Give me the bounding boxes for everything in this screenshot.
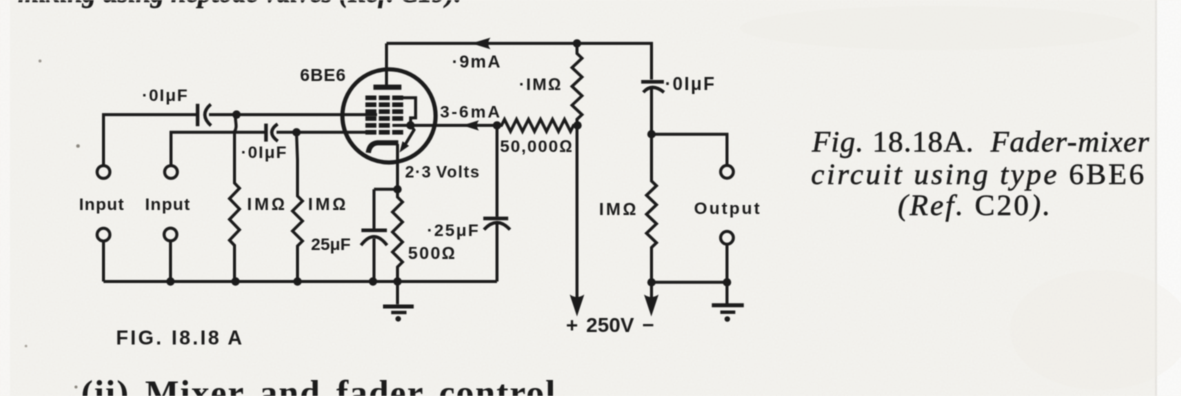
wire B+ down with arrow xyxy=(570,125,585,316)
svg-text:(ii) Mixer and fader control: (ii) Mixer and fader control xyxy=(81,373,557,396)
tube cathode xyxy=(368,143,398,153)
capacitor C2 .01uF (input 2 coupling) xyxy=(266,124,278,142)
node grid1 junction xyxy=(232,110,240,118)
node output ground link xyxy=(723,278,731,286)
capacitor C1 .01uF (input 1 coupling) xyxy=(198,104,211,126)
arrow B- down xyxy=(644,282,659,316)
node rail 500 ohm xyxy=(393,277,401,285)
svg-text:Fig. 18.18A. Fader-mixer: Fig. 18.18A. Fader-mixer xyxy=(811,126,1149,159)
svg-text:·9mA: ·9mA xyxy=(452,52,502,72)
svg-text:+ 250V −: + 250V − xyxy=(566,314,654,337)
svg-text:·IMΩ: ·IMΩ xyxy=(519,75,563,94)
wire to output terminal top xyxy=(652,134,728,165)
input terminal 2 bottom xyxy=(164,228,177,241)
svg-text:circuit using type 6BE6: circuit using type 6BE6 xyxy=(811,158,1144,191)
capacitor .25uF xyxy=(483,218,510,229)
svg-text:25μF: 25μF xyxy=(311,235,351,254)
resistor .1M plate load xyxy=(572,43,582,125)
wire 25uF to rail xyxy=(373,239,376,282)
node 50k left xyxy=(493,121,501,129)
svg-text:3-6mA: 3-6mA xyxy=(440,103,502,122)
wire cathode to 25uF xyxy=(374,189,398,229)
ground symbol left xyxy=(383,282,414,322)
node output resistor bottom xyxy=(647,278,655,286)
node cathode junction xyxy=(393,185,401,193)
wire input2 bottom to rail xyxy=(169,241,172,282)
wire input2 to C2 xyxy=(171,132,265,166)
wire output cap down xyxy=(650,88,653,134)
resistor 50000 ohm xyxy=(497,119,578,131)
node rail R2 xyxy=(293,277,301,285)
node output junction xyxy=(647,130,655,138)
arrow left on plate rail xyxy=(472,38,491,50)
wire .25uF branch xyxy=(496,125,499,216)
wire C1 to tube grid xyxy=(209,113,377,116)
node 50k right xyxy=(573,121,581,129)
svg-text:Output: Output xyxy=(694,199,762,218)
cropped heading bottom xyxy=(81,373,557,396)
cropped text top xyxy=(18,0,461,8)
svg-text:mixing using heptode valves (R: mixing using heptode valves (Ref. C19). xyxy=(18,0,461,8)
output terminal bottom xyxy=(721,231,734,244)
input terminal 2 top xyxy=(165,166,178,179)
arrow 3-6mA xyxy=(463,120,480,130)
input terminal 1 bottom xyxy=(97,228,110,241)
wire input1 to C1 xyxy=(104,115,197,166)
wire 3-6mA line xyxy=(392,124,497,127)
wire output bottom to ground xyxy=(726,244,729,282)
svg-text:Input: Input xyxy=(79,195,125,214)
svg-text:·0IμF: ·0IμF xyxy=(142,86,189,105)
svg-text:IMΩ: IMΩ xyxy=(599,199,638,219)
tube plate (anode) xyxy=(373,85,401,90)
node grid2 junction xyxy=(292,128,300,136)
svg-text:2·3 Volts: 2·3 Volts xyxy=(405,164,480,182)
wire input1 bottom to rail xyxy=(102,241,105,281)
output terminal top xyxy=(721,165,734,178)
node rail input2 xyxy=(166,277,174,285)
capacitor 25uF cathode bypass xyxy=(361,230,387,245)
svg-text:·0IμF: ·0IμF xyxy=(241,143,288,162)
wire output bottom link xyxy=(652,281,728,284)
svg-text:500Ω: 500Ω xyxy=(408,243,457,263)
input terminal 1 top xyxy=(97,166,110,179)
wire top rail plate to output cap xyxy=(387,43,652,79)
svg-text:·0IμF: ·0IμF xyxy=(665,74,716,94)
svg-text:FIG. I8.I8 A: FIG. I8.I8 A xyxy=(116,328,244,350)
capacitor .01uF output coupling xyxy=(641,82,664,93)
ground rail bottom xyxy=(104,280,498,283)
resistor 1M output grid leak xyxy=(647,134,657,282)
svg-text:IMΩ: IMΩ xyxy=(247,194,287,214)
node rail plate resistor xyxy=(573,39,581,47)
svg-text:(Ref. C20).: (Ref. C20). xyxy=(898,189,1052,222)
svg-text:IMΩ: IMΩ xyxy=(308,194,348,214)
node rail R1 xyxy=(231,277,239,285)
wire C2 to tube grid 2 xyxy=(277,131,367,134)
tube grids (dashed rows) xyxy=(365,96,403,135)
resistor 500 ohm cathode xyxy=(393,189,403,281)
node rail 25uF xyxy=(369,277,377,285)
svg-text:·25μF: ·25μF xyxy=(427,221,480,240)
wire plate lead xyxy=(385,43,388,85)
tube 6BE6 envelope xyxy=(342,69,435,162)
resistor 1M grid leak 2 xyxy=(293,132,303,281)
svg-text:6BE6: 6BE6 xyxy=(300,65,346,85)
ground symbol right xyxy=(712,282,744,322)
svg-text:50,000Ω: 50,000Ω xyxy=(500,137,573,156)
node tube screen junction xyxy=(406,121,414,129)
svg-text:Input: Input xyxy=(145,195,191,214)
resistor 1M grid leak 1 xyxy=(230,115,240,282)
tube screen bracket xyxy=(403,98,416,126)
tube inner grid arrow xyxy=(400,125,415,152)
wire cathode lead xyxy=(396,144,399,189)
wire .25uF to rail corner xyxy=(496,223,499,282)
